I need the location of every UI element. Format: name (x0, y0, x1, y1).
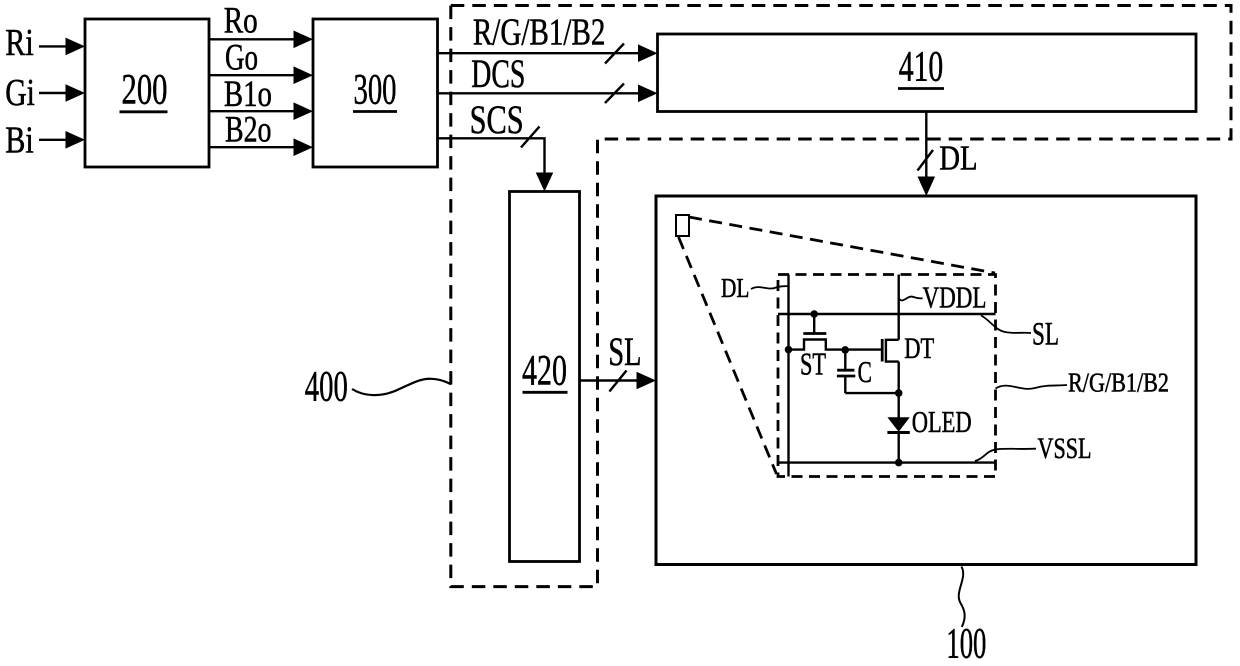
svg-text:400: 400 (305, 363, 348, 411)
block 200 (85, 19, 209, 167)
wire VSSL horizontal line in pixel (778, 461, 996, 463)
svg-text:SCS: SCS (470, 97, 524, 142)
block 420 (510, 192, 580, 562)
wire SL horizontal line in pixel (778, 313, 996, 315)
wire DL from 410 to panel (918, 112, 936, 197)
svg-text:Ri: Ri (5, 22, 34, 64)
svg-text:DT: DT (904, 333, 934, 365)
wire VDDL vertical line in pixel (898, 275, 900, 340)
svg-text:SL: SL (608, 329, 641, 374)
svg-text:Bi: Bi (5, 120, 34, 162)
svg-text:DL: DL (721, 272, 749, 303)
diode OLED (887, 417, 909, 462)
node VDDL label with leader (900, 280, 987, 315)
node SL label (right) with leader (981, 316, 1059, 353)
svg-text:OLED: OLED (912, 404, 972, 439)
pixel circuit dashed box (778, 275, 996, 477)
wire ST drain to DT gate (845, 348, 883, 350)
svg-text:300: 300 (354, 66, 397, 114)
svg-text:ST: ST (800, 347, 826, 382)
node R/G/B1/B2 label (right) with leader (996, 368, 1170, 398)
wire Gi input arrow (39, 84, 85, 102)
svg-text:Gi: Gi (5, 72, 35, 114)
svg-text:VSSL: VSSL (1038, 432, 1092, 465)
wire SCS to 420 (438, 127, 554, 192)
svg-text:DL: DL (939, 139, 977, 178)
label 400 with leader (305, 363, 451, 411)
wire B1o (209, 102, 313, 120)
block 300 (313, 19, 438, 167)
node VSSL label with leader (975, 432, 1092, 465)
wire Ri input arrow (39, 38, 85, 56)
wire R/G/B1/B2 to 410 (438, 44, 658, 64)
capacitor C (837, 350, 899, 394)
svg-text:B2o: B2o (225, 110, 272, 151)
node DL label (pixel) with leader (721, 272, 789, 303)
wire DL vertical line in pixel (787, 275, 789, 477)
wire Go (209, 66, 313, 84)
block 410 (658, 34, 1197, 112)
node DT drain junction dot (895, 389, 903, 397)
svg-text:200: 200 (122, 66, 168, 114)
svg-text:420: 420 (522, 347, 567, 395)
wire Bi input arrow (39, 131, 85, 149)
wire Ro (209, 31, 313, 49)
wire B2o (209, 138, 313, 156)
node gate of DT junction dot (841, 346, 849, 354)
wire SL from 420 to panel (580, 371, 657, 392)
block 100 display panel (656, 196, 1196, 565)
svg-text:SL: SL (1032, 317, 1059, 353)
node OLED-VSSL junction dot (895, 459, 903, 467)
callout dashed line lower (679, 237, 777, 474)
svg-text:R/G/B1/B2: R/G/B1/B2 (473, 12, 606, 54)
svg-text:DCS: DCS (471, 51, 525, 96)
label 100 with leader (946, 567, 986, 666)
svg-text:100: 100 (946, 620, 986, 666)
dashed box 400 outline (451, 6, 1231, 587)
svg-text:R/G/B1/B2: R/G/B1/B2 (1068, 368, 1169, 398)
wire DCS to 410 (438, 84, 658, 104)
transistor DT (882, 339, 899, 419)
svg-text:410: 410 (899, 43, 944, 91)
svg-text:C: C (858, 355, 872, 389)
svg-text:VDDL: VDDL (923, 280, 987, 315)
callout dashed line upper (689, 217, 995, 273)
svg-text:Ro: Ro (224, 1, 258, 42)
svg-text:Go: Go (225, 38, 258, 79)
pixel cell small square (676, 215, 689, 236)
transistor ST (785, 310, 845, 353)
svg-text:B1o: B1o (224, 74, 272, 115)
